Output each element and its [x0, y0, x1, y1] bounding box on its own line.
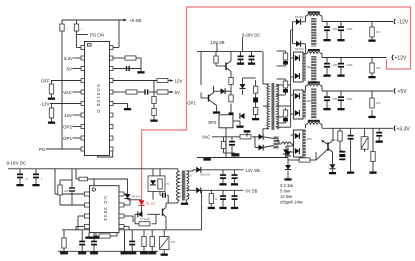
svg-text:5V: 5V [175, 90, 181, 95]
svg-text:+5V: +5V [398, 89, 408, 95]
svg-text:100: 100 [376, 101, 381, 105]
svg-text:1000: 1000 [333, 63, 339, 67]
svg-text:0V SB: 0V SB [246, 188, 258, 193]
svg-text:1000: 1000 [347, 27, 353, 31]
svg-text:150: 150 [376, 66, 381, 70]
svg-text:1000: 1000 [347, 97, 353, 101]
svg-text:RL 157: RL 157 [146, 202, 156, 206]
svg-text:+12V: +12V [395, 56, 407, 62]
svg-text:1000: 1000 [333, 97, 339, 101]
svg-text:общий 14мг: общий 14мг [280, 200, 304, 205]
svg-text:-12V: -12V [40, 102, 50, 107]
svg-text:10k: 10k [64, 189, 69, 193]
svg-text:9-18V DC: 9-18V DC [7, 161, 28, 166]
svg-text:1000: 1000 [333, 27, 339, 31]
svg-text:12V: 12V [64, 113, 72, 118]
svg-text:OP2: OP2 [208, 120, 217, 125]
svg-text:12V: 12V [175, 79, 183, 84]
svg-text:OP1: OP1 [187, 100, 196, 105]
svg-text:SR 160: SR 160 [132, 195, 141, 199]
svg-text:3.3V: 3.3V [64, 56, 73, 61]
svg-text:VAC: VAC [202, 135, 210, 140]
svg-text:-12V: -12V [398, 20, 409, 26]
svg-text:12 5мг: 12 5мг [280, 194, 293, 199]
svg-text:12V SB: 12V SB [210, 40, 224, 45]
svg-text:VAC: VAC [63, 90, 73, 95]
svg-text:PG: PG [39, 147, 46, 152]
svg-text:3.3 3мг: 3.3 3мг [280, 183, 294, 188]
svg-text:+5 SB: +5 SB [129, 18, 141, 23]
svg-text:1000: 1000 [347, 63, 353, 67]
svg-text:C945: C945 [331, 138, 338, 142]
svg-text:UC 3843: UC 3843 [103, 196, 108, 221]
svg-text:150: 150 [376, 30, 381, 34]
svg-text:+3.3V: +3.3V [397, 126, 411, 132]
svg-text:OP1: OP1 [63, 136, 73, 141]
svg-text:10k: 10k [171, 240, 176, 244]
svg-text:SB 560: SB 560 [295, 47, 304, 51]
svg-text:SG6105 D: SG6105 D [96, 84, 101, 114]
svg-text:9-18V DC: 9-18V DC [242, 32, 260, 37]
svg-text:5 6мг: 5 6мг [280, 189, 291, 194]
svg-text:1N 4148: 1N 4148 [140, 217, 150, 221]
svg-text:16A: 16A [307, 65, 312, 69]
svg-text:SB 5100: SB 5100 [200, 173, 211, 177]
svg-text:16A: 16A [307, 137, 312, 141]
svg-text:OFF: OFF [41, 79, 50, 84]
svg-text:SB 560: SB 560 [295, 15, 304, 19]
svg-text:PS ON: PS ON [90, 33, 104, 38]
svg-text:OP2: OP2 [63, 125, 73, 130]
svg-text:20A: 20A [307, 99, 312, 103]
svg-text:12V SB: 12V SB [246, 168, 260, 173]
svg-text:5V: 5V [66, 67, 72, 72]
